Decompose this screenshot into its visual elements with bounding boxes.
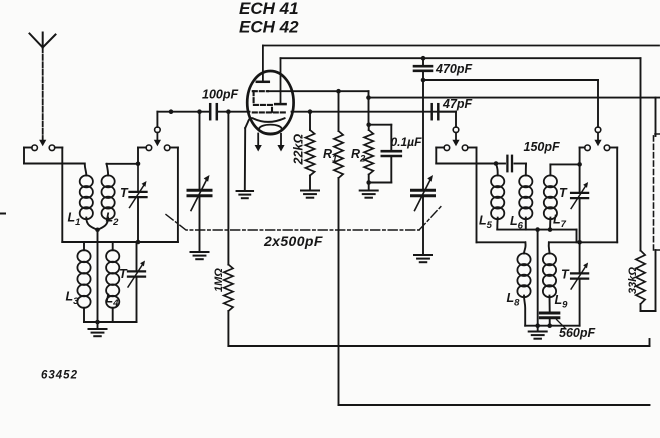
wire line B east (369, 97, 660, 99)
node R1 tap (336, 89, 341, 94)
tube U1 heater lead b (280, 134, 282, 146)
switch S3 contact a (444, 145, 450, 151)
wire screen rail (281, 57, 641, 59)
capacitor 150pF (496, 163, 505, 165)
label 560pF leader (557, 320, 567, 330)
wire jog down (368, 91, 370, 125)
node 470p top (421, 56, 426, 61)
svg-text:ECH 42: ECH 42 (239, 18, 299, 37)
tube U1 cathode (245, 118, 284, 128)
node L7top-T3 (577, 162, 582, 167)
coil L6 (525, 164, 527, 176)
svg-text:150pF: 150pF (524, 140, 560, 154)
tube U1 grid dashes (253, 90, 268, 92)
switch S2 wiper (155, 127, 161, 133)
svg-text:2x500pF: 2x500pF (263, 233, 323, 249)
node ground tap (95, 320, 100, 325)
wire AVC rail (228, 345, 649, 347)
node 22k tap (308, 109, 313, 114)
node R2 top (366, 122, 371, 127)
resistor 22k (309, 112, 311, 130)
capacitor 560pF (540, 312, 559, 315)
tube U1 base (259, 125, 282, 134)
wire 100pF to tube (219, 111, 250, 113)
switch S4 contact a (585, 145, 591, 151)
wire S4b (610, 147, 617, 149)
coil L9 (548, 242, 551, 253)
coil L3 (83, 242, 85, 250)
tube U1 heater lead a (257, 134, 259, 147)
antenna (30, 33, 56, 48)
capacitor 100pF (209, 104, 212, 119)
ground G2 (191, 251, 209, 253)
wire S3b to L8 rail (468, 147, 477, 149)
svg-text:47pF: 47pF (442, 97, 473, 111)
node 1M tap (226, 109, 231, 114)
wire 47pF to S3 (440, 111, 456, 113)
switch S2 contact b (164, 145, 170, 151)
ground G4 (301, 190, 319, 192)
wire L2 top rail (107, 163, 139, 165)
left edge tick (0, 213, 5, 215)
svg-text:100pF: 100pF (202, 88, 238, 102)
node L5 top (494, 161, 499, 166)
svg-text:ECH 41: ECH 41 (239, 0, 299, 18)
variable capacitor C1b (422, 80, 424, 190)
ground G1 (97, 322, 99, 329)
wire control-grid line (157, 111, 208, 113)
tube U1 triode grid (275, 103, 285, 106)
switch S3 wiper (453, 127, 459, 133)
svg-text:0.1µF: 0.1µF (391, 135, 423, 149)
switch S1 contact a (32, 145, 38, 151)
switch S2 contact a (146, 145, 152, 151)
node varcap C1 tap (197, 109, 202, 114)
wire center tap down (537, 230, 539, 326)
wire anode rail (263, 45, 659, 47)
ground G3 (237, 190, 254, 192)
variable capacitor C1a (199, 112, 201, 191)
capacitor 470pF (422, 58, 424, 64)
wire osc wiper rail (423, 79, 598, 81)
coil L2 (107, 164, 109, 176)
wire grid line east (292, 111, 457, 113)
ground G5 (360, 190, 378, 192)
node T3 bottom (577, 240, 582, 245)
wire L3/L4 top rail (62, 241, 178, 243)
node 560p bottom (547, 323, 552, 328)
trimmer T3 (579, 148, 581, 193)
capacitor 47pF (430, 104, 433, 119)
trimmer T2 (128, 270, 145, 272)
wire S1b down to L3 rail (55, 147, 63, 149)
wire bottom rail left section (84, 321, 137, 323)
switch S1 contact b (49, 145, 55, 151)
wire osc wiper down (597, 80, 599, 127)
wire right edge drop (655, 98, 657, 136)
trimmer T4 (579, 242, 581, 273)
node L2top-T1 (136, 162, 141, 167)
switch S3 contact b (462, 145, 468, 151)
wire grid line west end (156, 112, 158, 127)
switch S1 wiper (42, 136, 44, 141)
wire R1 bottom rail (339, 404, 650, 406)
node 470p bottom (421, 78, 426, 83)
node G7 tap (535, 323, 540, 328)
tube U1 envelope (247, 71, 293, 134)
wire screen rail drop (640, 58, 642, 250)
node R2 bottom (366, 180, 371, 185)
coil L1 (85, 164, 87, 176)
wire S3a to L5 (436, 147, 444, 149)
wire S2b to L4 rail (170, 147, 178, 149)
wire S1a to L1 top (24, 147, 32, 149)
ground G7 (537, 326, 539, 331)
resistor R2 (368, 125, 370, 130)
wire 33k jog (641, 310, 656, 312)
resistor R1 (338, 91, 340, 131)
IF transformer dashed box (654, 134, 660, 250)
coil L4 (112, 242, 114, 250)
node L7 bottom (548, 227, 553, 232)
svg-text:33kΩ: 33kΩ (627, 267, 639, 294)
tube U1 anode (257, 81, 269, 84)
wire S2a to L2 (138, 147, 146, 149)
svg-text:22kΩ: 22kΩ (292, 134, 306, 166)
wire osc grid line (268, 90, 369, 92)
wire cathode to ground (244, 128, 246, 190)
ground G6 (414, 254, 432, 256)
coil L5 (496, 164, 498, 176)
coil L8 (524, 242, 526, 253)
node grid line dot (169, 109, 174, 114)
node T1 bottom (136, 240, 141, 245)
capacitor 0.1uF (369, 124, 392, 126)
node center tap (535, 227, 540, 232)
node L1-L2 junction (95, 228, 100, 233)
gang dash-dot link (166, 215, 419, 231)
wire S4a (580, 147, 585, 149)
coil L7 (549, 164, 551, 175)
svg-text:63452: 63452 (41, 370, 78, 382)
resistor 1M (227, 112, 229, 265)
wire L8/L9 bottom rail (525, 325, 579, 327)
svg-text:470pF: 470pF (435, 62, 472, 76)
wire L7 top rail (550, 163, 579, 165)
resistor 33k (636, 251, 645, 305)
node jog (366, 95, 371, 100)
switch S4 contact b (604, 145, 610, 151)
switch S4 wiper (595, 127, 601, 133)
wire L9 top rail (549, 241, 617, 243)
svg-text:560pF: 560pF (559, 326, 595, 340)
svg-text:1MΩ: 1MΩ (213, 268, 225, 292)
wire center tap down (97, 230, 99, 322)
trimmer T1 (137, 164, 139, 191)
wire L5-L7 bottom rail (497, 229, 576, 231)
